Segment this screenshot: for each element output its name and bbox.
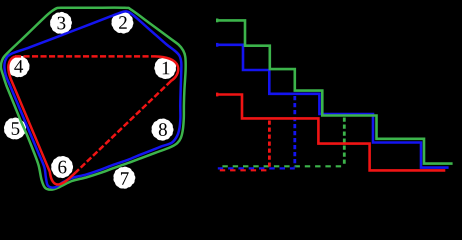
red dashed asymptote [220,169,270,171]
red tour solid left part [8,56,75,184]
node 4 label [14,60,23,73]
node 5 label [12,122,20,135]
green dashed marker vertical [343,118,346,165]
node 2 circle [111,12,133,34]
node 1 circle [154,57,176,79]
node 5 circle [4,118,26,140]
blue tour outline [4,11,181,187]
red tour arc at node 1 [155,56,178,81]
node 3 circle [50,12,72,34]
node 6 circle [51,156,73,178]
red staircase [217,95,446,171]
red dashed marker vertical [268,121,271,169]
node 3 label [58,17,66,30]
blue staircase [217,45,449,168]
blue dashed asymptote [218,167,295,169]
node 2 label [119,16,127,29]
node 8 label [159,123,167,136]
node 7 circle [113,167,135,189]
node 4 circle [8,55,30,77]
node 6 label [58,161,66,174]
blue dashed marker vertical [293,96,296,167]
green tour outline [1,8,186,190]
green staircase [217,20,453,163]
node 1 label [163,62,170,75]
node 8 circle [151,118,173,140]
red dashed edge 4-1 [15,55,155,58]
node 7 label [121,172,129,184]
green dashed asymptote [222,165,344,167]
red dashed edge 1-6 [76,81,171,172]
